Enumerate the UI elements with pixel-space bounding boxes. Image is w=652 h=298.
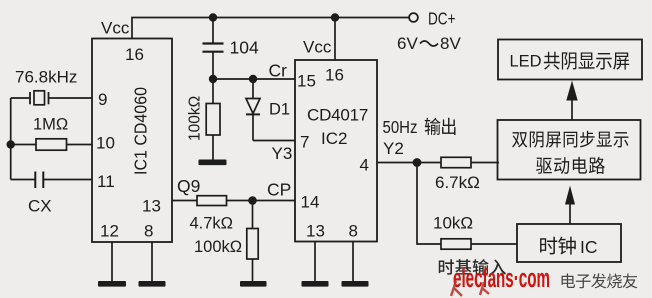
node: junction of Vcc rail and IC2 Vcc pin wire bbox=[331, 13, 339, 21]
svg-text:13: 13 bbox=[142, 197, 161, 216]
svg-text:6V: 6V bbox=[397, 34, 418, 53]
node: junction CP / 100k pulldown bbox=[248, 196, 257, 205]
resistor R 100k (reset) bbox=[206, 79, 220, 160]
ground: IC2 pin 13 bbox=[302, 242, 329, 287]
block: LED common-cathode display panel bbox=[498, 40, 642, 80]
svg-text:6.7kΩ: 6.7kΩ bbox=[435, 173, 480, 192]
wire: IC2 pin 4 to 6.7k bbox=[377, 162, 441, 164]
wire: 4.7k to IC2 pin 14 (CP) bbox=[227, 200, 296, 202]
terminal: DC+ supply input bbox=[409, 13, 418, 22]
svg-text:50Hz: 50Hz bbox=[383, 117, 418, 137]
svg-text:Cr: Cr bbox=[269, 61, 288, 81]
resistor R 10k bbox=[441, 239, 471, 249]
ground: IC2 pin 8 bbox=[342, 242, 369, 287]
svg-text:100kΩ: 100kΩ bbox=[187, 96, 204, 141]
svg-text:16: 16 bbox=[325, 66, 344, 85]
diode D1 bbox=[246, 79, 295, 141]
IC U1: CD4060 box bbox=[92, 39, 172, 243]
arrow: clock IC to driver bbox=[565, 186, 575, 225]
crystal X1 76.8kHz bbox=[11, 91, 92, 105]
capacitor CX bbox=[11, 172, 92, 189]
resistor R 4.7k bbox=[197, 196, 227, 206]
svg-text:9: 9 bbox=[98, 90, 107, 109]
ground: below CP pulldown bbox=[240, 281, 267, 287]
wire: Vcc rail to IC2 pin 16 bbox=[334, 18, 336, 61]
svg-text:Y3: Y3 bbox=[272, 144, 293, 163]
arrow: driver to LED display bbox=[566, 81, 577, 121]
node: junction Y2 / clock branch bbox=[413, 158, 422, 167]
svg-text:7: 7 bbox=[300, 133, 309, 152]
node: junction Cr / 100k bbox=[209, 75, 217, 83]
svg-text:D1: D1 bbox=[269, 101, 290, 119]
wire: crystal to IC1 pin 9 bbox=[49, 97, 93, 99]
svg-text:CX: CX bbox=[28, 197, 52, 216]
wire: 10k to clock IC box bbox=[471, 243, 517, 245]
svg-text:CP: CP bbox=[267, 180, 291, 200]
resistor R 1M ohm bbox=[11, 139, 92, 150]
svg-text:LED: LED bbox=[510, 53, 542, 71]
svg-text:100kΩ: 100kΩ bbox=[194, 238, 242, 256]
svg-text:CD4017: CD4017 bbox=[307, 106, 368, 125]
svg-text:13: 13 bbox=[306, 222, 325, 241]
watermark: elecfans Chinese name bbox=[562, 273, 576, 288]
ground: IC1 pin 8 bbox=[139, 242, 166, 287]
block: clock IC bbox=[517, 224, 621, 262]
capacitor C 104 (0.1uF) bbox=[203, 18, 224, 80]
block: dual-panel synchronous display driver circuit bbox=[498, 120, 641, 180]
resistor R 6.7k bbox=[441, 157, 471, 167]
svg-text:10: 10 bbox=[96, 134, 115, 153]
IC U2: CD4017 box bbox=[295, 60, 377, 242]
svg-text:Vcc: Vcc bbox=[303, 38, 332, 57]
svg-text:IC2: IC2 bbox=[321, 129, 347, 148]
wire: R 1M to IC1 pin 10 bbox=[67, 144, 93, 146]
node: junction Cr / D1 bbox=[249, 75, 257, 83]
wire: D1 cathode to IC2 pin 7 (Y3) bbox=[253, 140, 295, 142]
svg-text:104: 104 bbox=[230, 38, 259, 58]
svg-text:IC: IC bbox=[580, 237, 598, 257]
svg-text:8V: 8V bbox=[440, 34, 461, 53]
resistor R 100k (CP pulldown) bbox=[247, 201, 258, 282]
node: junction of Vcc rail and 104 capacitor bbox=[209, 13, 217, 21]
svg-text:Y2: Y2 bbox=[383, 139, 404, 158]
wire: left oscillator bus bbox=[10, 98, 12, 180]
wire: Vcc top rail from IC1 pin16 stub to DC+ terminal bbox=[132, 18, 409, 39]
svg-text:76.8kHz: 76.8kHz bbox=[15, 68, 77, 87]
svg-text:IC1 CD4060: IC1 CD4060 bbox=[131, 87, 151, 175]
ground: IC1 pin 12 bbox=[98, 242, 126, 287]
wire: 6.7k to driver box bbox=[471, 162, 499, 164]
svg-text:elecfans·com: elecfans·com bbox=[453, 263, 550, 293]
svg-text:Q9: Q9 bbox=[177, 176, 200, 196]
svg-text:4: 4 bbox=[360, 156, 369, 175]
wire: IC1 Q9 output to 4.7k bbox=[172, 200, 197, 202]
watermark: red stamp strokes bbox=[451, 281, 489, 296]
svg-text:4.7kΩ: 4.7kΩ bbox=[190, 215, 234, 233]
wire: Cr net to IC2 pin 15 bbox=[213, 78, 295, 80]
svg-text:8: 8 bbox=[349, 222, 358, 241]
wire: junction down to 10k bbox=[417, 163, 441, 245]
svg-text:DC+: DC+ bbox=[428, 9, 456, 29]
svg-text:Vcc: Vcc bbox=[101, 19, 130, 38]
svg-text:12: 12 bbox=[100, 222, 119, 241]
svg-text:10kΩ: 10kΩ bbox=[433, 214, 473, 233]
svg-text:14: 14 bbox=[301, 193, 320, 212]
ground: below reset 100k resistor bbox=[199, 160, 227, 166]
svg-text:15: 15 bbox=[297, 72, 316, 91]
svg-text:1MΩ: 1MΩ bbox=[33, 116, 68, 134]
wire: CX to IC1 pin 11 bbox=[43, 179, 92, 181]
svg-text:8: 8 bbox=[144, 222, 153, 241]
label: time-base input bbox=[439, 259, 454, 274]
node: junction of bus and R 1M bbox=[7, 140, 15, 148]
svg-text:16: 16 bbox=[125, 45, 144, 64]
svg-text:11: 11 bbox=[97, 172, 115, 191]
